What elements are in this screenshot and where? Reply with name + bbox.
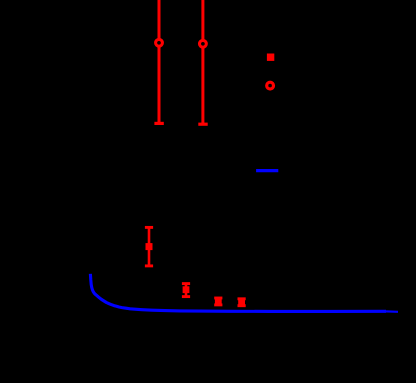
stem <box>158 0 161 123</box>
model curve (blue line) <box>90 274 386 312</box>
square marker <box>238 299 245 306</box>
legend square marker <box>267 54 274 61</box>
top cap <box>214 297 222 300</box>
square marker <box>215 298 222 305</box>
stem <box>201 0 204 124</box>
bottom cap <box>154 122 163 125</box>
errorbar point 5 (square marker) <box>214 298 222 305</box>
errorbar point 1 (circle marker, off-top) <box>154 0 163 123</box>
bottom cap <box>198 123 207 126</box>
circle marker <box>200 40 207 47</box>
model curve end tail <box>386 310 398 313</box>
top cap <box>238 297 246 300</box>
errorbar point 6 (square marker) <box>238 299 246 306</box>
stem <box>240 299 243 306</box>
errorbar point 2 (circle marker, off-top) <box>198 0 207 124</box>
errorbar point 4 (square marker) <box>182 284 190 297</box>
stem <box>217 298 220 305</box>
legend line (blue) <box>256 169 278 172</box>
top cap <box>145 226 153 229</box>
errorbar point 3 (square marker) <box>145 227 153 266</box>
top cap <box>182 282 190 285</box>
stem <box>185 284 188 297</box>
stem <box>148 227 151 266</box>
bottom cap <box>214 303 222 306</box>
bottom cap <box>182 295 190 298</box>
circle marker <box>156 39 163 46</box>
square marker <box>183 286 190 293</box>
bottom cap <box>238 304 246 307</box>
square marker <box>146 243 153 250</box>
legend circle marker <box>267 82 274 89</box>
bottom cap <box>145 264 153 267</box>
